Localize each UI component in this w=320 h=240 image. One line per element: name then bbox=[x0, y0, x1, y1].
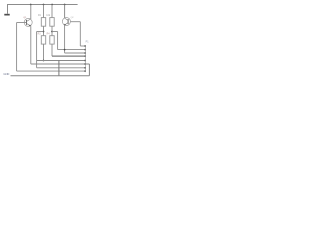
node A dot bbox=[43, 31, 45, 33]
wire Q1 emitter drop bbox=[30, 26, 32, 64]
transistor Q2 bbox=[62, 18, 70, 26]
wire top power rail bbox=[7, 4, 78, 6]
wire Q1 base drop bbox=[16, 23, 18, 72]
wire battery stem bbox=[7, 5, 9, 14]
connector P1 pin8 pad bbox=[84, 70, 86, 71]
wire Q2 collector drop bbox=[64, 5, 66, 19]
wire R2 bottom lead / node B bbox=[51, 26, 53, 36]
wire row67.8 to header pin7 bbox=[37, 67, 85, 69]
resistor R4 bbox=[50, 36, 54, 44]
node row49.6-emitter junction bbox=[64, 49, 66, 51]
connector P1 pin7 pad bbox=[84, 67, 86, 68]
wire row49.6 to header pin2 bbox=[58, 49, 85, 51]
connector P1 body bbox=[85, 45, 87, 72]
node rail-R1 junction bbox=[43, 4, 45, 6]
wire R3 bottom lead bbox=[43, 44, 45, 60]
resistor R3 bbox=[41, 36, 45, 44]
wire Q2 base horizontal bbox=[71, 21, 81, 23]
wire R2 top lead bbox=[51, 5, 53, 18]
resistor R2 bbox=[50, 18, 54, 27]
connector P1 pin6 pad bbox=[84, 63, 86, 64]
wire node A elbow drop bbox=[36, 32, 38, 68]
transistor Q1 bbox=[24, 18, 32, 26]
node rail-Q1 junction bbox=[30, 4, 32, 6]
wire Q2 base drop bbox=[79, 22, 81, 46]
wire row71 to header pin8 bbox=[17, 70, 85, 72]
wire node B elbow drop bbox=[57, 32, 59, 50]
wire bottom ground row bbox=[11, 75, 90, 77]
wire ground drop from row60.5 bbox=[58, 61, 60, 76]
wire ground riser right bbox=[88, 64, 90, 76]
node rail-Q2 junction bbox=[64, 4, 66, 6]
wire Q1 collector drop bbox=[30, 5, 32, 20]
wire R4 bottom lead bbox=[51, 44, 53, 56]
wire Q1 base horizontal bbox=[17, 22, 27, 24]
node B dot bbox=[51, 31, 53, 33]
node row60.5-R3 dot bbox=[43, 60, 45, 62]
wire Q2 emitter drop bbox=[64, 25, 66, 53]
wire row64 to header pin6 bbox=[31, 63, 85, 65]
wire ground tick into pin5 bbox=[86, 63, 90, 65]
wire R1 top lead bbox=[43, 5, 45, 18]
battery BAT1 plate bbox=[4, 14, 9, 16]
connector P1 pin3 pad bbox=[84, 52, 86, 53]
wire R1 bottom lead / node A bbox=[43, 26, 45, 36]
wire Q2 base to header pin1 bbox=[80, 45, 85, 47]
connector P1 pin5 pad bbox=[84, 60, 86, 61]
wire node A to left elbow bbox=[37, 31, 44, 33]
connector P1 pin4 pad bbox=[84, 55, 86, 56]
wire row56.1 to header pin4 bbox=[52, 55, 85, 57]
resistor R1 bbox=[41, 18, 45, 27]
wire row60.5 to header pin5 bbox=[37, 60, 85, 62]
connector P1 pin2 pad bbox=[84, 49, 86, 50]
wire row53 to header pin3 bbox=[65, 52, 85, 54]
wire node B to right elbow bbox=[52, 31, 58, 33]
svg-text:GND: GND bbox=[3, 72, 9, 76]
node rail-R2 junction bbox=[51, 4, 53, 6]
connector P1 pin1 pad bbox=[84, 45, 86, 46]
